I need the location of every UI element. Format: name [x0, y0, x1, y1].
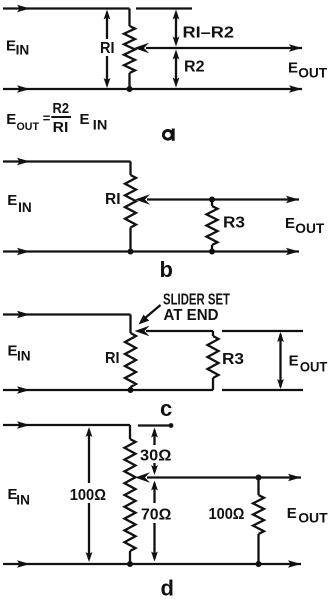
dimension arrow 100-ohm upper part (section d): [88, 430, 90, 483]
svg-text:E: E: [8, 343, 18, 360]
wiper arrow of R1 (section a): [134, 43, 149, 53]
potentiometer R1 (section b): [125, 175, 136, 228]
arrowhead on section a bottom rail (left): [17, 85, 30, 92]
svg-text:RI: RI: [105, 191, 121, 208]
svg-text:OUT: OUT: [300, 358, 328, 374]
svg-text:E: E: [289, 352, 299, 369]
arrowhead on section d top rail: [17, 421, 30, 428]
wire: section c top input rail: [3, 313, 131, 315]
svg-text:E: E: [287, 505, 297, 522]
svg-text:E: E: [6, 37, 16, 54]
end dot of reference line (section d): [169, 423, 174, 428]
svg-text:E: E: [7, 192, 17, 209]
svg-text:E: E: [285, 215, 295, 232]
junction dot R1 bottom (section b): [128, 249, 134, 255]
svg-text:E: E: [6, 111, 16, 128]
reference line for 30-ohm dimension (section d): [138, 424, 171, 426]
arrowhead on section d bottom rail (left): [17, 560, 30, 567]
arrowhead section a wiper/output rail: [289, 44, 302, 51]
svg-text:IN: IN: [16, 41, 30, 57]
resistor R3 (section c): [212, 331, 214, 336]
svg-text:OUT: OUT: [298, 509, 328, 525]
potentiometer R1 (section c, slider at top): [125, 333, 136, 387]
junction dot potentiometer bottom (section d): [127, 561, 133, 567]
svg-text:IN: IN: [17, 347, 31, 363]
dimension arrow EOUT (section c): [279, 334, 281, 387]
junction dot R3 bottom (section b): [209, 249, 215, 255]
reference line for R1-R2 dimension: [136, 7, 192, 9]
junction dot wiper to R3 (section b): [209, 197, 215, 203]
arrowhead on section b bottom rail (right): [286, 248, 299, 255]
svg-text:b: b: [160, 257, 173, 282]
load resistor 100-ohm (section d): [257, 478, 259, 496]
svg-text:RI–R2: RI–R2: [183, 25, 235, 42]
dimension arrow 30-ohm lower part (section d): [153, 463, 155, 472]
arrowhead on section a top rail: [17, 5, 30, 12]
wire: section b top input rail: [3, 160, 131, 162]
dimension arrow R1-R2: [175, 13, 177, 43]
dimension arrow R1 (up part): [106, 13, 108, 39]
arrowhead section d wiper/output rail: [288, 474, 301, 481]
svg-text:70Ω: 70Ω: [141, 506, 171, 523]
resistor R3 (section b): [211, 200, 213, 207]
arrowhead on section d bottom rail (right): [288, 560, 301, 567]
wire: section c bottom rail: [3, 389, 213, 391]
dimension arrow 30-ohm upper part (section d): [153, 430, 155, 445]
potentiometer R1 (section a): [124, 26, 135, 73]
svg-text:OUT: OUT: [17, 121, 40, 133]
svg-text:E: E: [80, 111, 90, 128]
wiper arrow (section d): [135, 472, 150, 482]
dimension arrow 70-ohm lower part (section d): [153, 523, 155, 559]
dimension arrow R2: [175, 53, 177, 84]
dimension arrow 70-ohm upper part (section d): [153, 483, 155, 503]
wire: section a top input rail: [3, 7, 130, 9]
dimension arrow R1 (down part): [106, 56, 108, 84]
annotation arrow slider-set (section c): [145, 305, 161, 319]
svg-text:R3: R3: [222, 351, 244, 368]
svg-text:E: E: [288, 60, 298, 77]
dimension arrow 100-ohm lower part (section d): [88, 503, 90, 559]
arrowhead on section b bottom rail (left): [17, 248, 30, 255]
svg-text:OUT: OUT: [295, 220, 324, 236]
svg-text:IN: IN: [93, 117, 108, 133]
svg-text:R2: R2: [53, 100, 70, 117]
svg-text:OUT: OUT: [298, 65, 327, 81]
svg-text:RI: RI: [100, 40, 115, 57]
reference line top for EOUT dimension (section c): [222, 330, 303, 332]
svg-text:d: d: [161, 576, 174, 600]
junction dot R1 bottom (section a): [127, 86, 133, 92]
svg-text:100Ω: 100Ω: [70, 487, 106, 504]
arrowhead on section a bottom rail (right): [289, 85, 302, 92]
arrowhead on section c bottom rail: [17, 386, 30, 393]
junction dot load bottom (section d): [256, 561, 262, 567]
wire: section d top input rail: [3, 424, 130, 426]
arrowhead on section c top rail: [17, 311, 30, 318]
svg-text:IN: IN: [18, 199, 32, 215]
svg-text:c: c: [160, 396, 172, 421]
label a (section letter): [163, 130, 172, 139]
wire: section a bottom rail: [3, 88, 302, 90]
svg-text:IN: IN: [16, 491, 30, 507]
svg-text:RI: RI: [53, 119, 69, 136]
wiper arrow of R1 (section b): [135, 194, 150, 204]
junction dot wiper to load (section d): [256, 475, 262, 481]
reference line bottom for EOUT dimension (section c): [222, 389, 303, 391]
svg-text:R3: R3: [223, 215, 245, 232]
svg-text:RI: RI: [105, 350, 120, 367]
svg-text:30Ω: 30Ω: [140, 447, 171, 464]
junction dot R1 bottom (section c): [128, 387, 134, 393]
arrowhead on section b top rail: [17, 158, 30, 165]
svg-text:=: =: [43, 110, 51, 125]
wire: section b bottom rail: [3, 250, 299, 252]
wire: section d bottom rail: [3, 563, 301, 565]
svg-text:SLIDER SET: SLIDER SET: [163, 292, 230, 309]
svg-text:AT END: AT END: [164, 307, 219, 324]
arrowhead section b wiper/output rail: [286, 196, 299, 203]
wiper arrow of R1 at top end (section c): [135, 326, 150, 336]
svg-text:100Ω: 100Ω: [209, 506, 245, 523]
potentiometer 100-ohm (section d): [125, 439, 136, 551]
svg-text:R2: R2: [184, 59, 205, 76]
